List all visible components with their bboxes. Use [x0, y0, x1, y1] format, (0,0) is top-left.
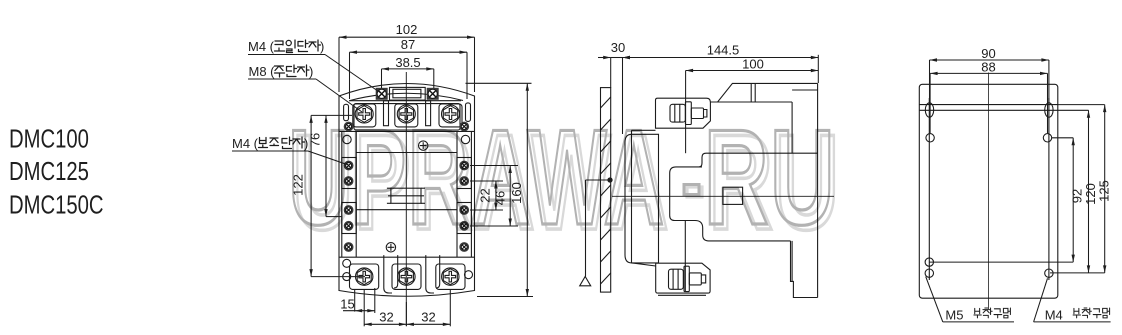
aux strips verticals — [341, 131, 343, 257]
watermark UPRAWA.RU — [288, 101, 841, 258]
inner arch line — [350, 93, 463, 100]
svg-text:38.5: 38.5 — [395, 55, 420, 70]
dimension 122 left — [311, 115, 365, 276]
front body outline — [339, 84, 475, 297]
shoulder top — [632, 129, 656, 131]
upper bolt housing — [656, 98, 711, 128]
svg-text:88: 88 — [981, 60, 995, 75]
svg-text:32: 32 — [379, 310, 393, 325]
보조단자 (aux terminal) at 258,137 — [259, 137, 305, 149]
dimension 38.5 — [382, 69, 434, 88]
label M4 aux terminal — [232, 136, 347, 165]
neck steps — [670, 167, 791, 241]
dimension 144.5 — [623, 55, 819, 83]
model list text — [9, 124, 104, 219]
aux blocks — [342, 158, 356, 189]
hole vertical centerlines — [928, 98, 930, 280]
plus screws on face — [386, 141, 428, 252]
lower bolt housing — [656, 263, 710, 293]
svg-text:UPRAWA: UPRAWA — [288, 101, 666, 252]
plate centerline — [988, 73, 990, 310]
datum triangle — [580, 178, 612, 286]
side body outline — [625, 83, 818, 297]
dimension 102 — [339, 37, 475, 92]
코일단자 (coil terminal) at 274,40 — [275, 40, 321, 53]
Korean glyphs group — [259, 40, 1110, 318]
부착구멍 M5 at 973,308 — [974, 308, 1010, 318]
front bulge — [625, 134, 659, 263]
svg-text:M4 (: M4 ( — [232, 136, 259, 151]
dimension 100 — [686, 71, 819, 154]
dimension 125 — [1050, 105, 1105, 273]
부착구멍 M4 at 1072,308 — [1073, 308, 1109, 318]
centerline front view — [405, 72, 407, 326]
terminal plate — [354, 104, 460, 130]
upper bolt — [670, 102, 707, 125]
leader M5 hole — [926, 277, 943, 322]
dimension 15 bottom — [343, 288, 375, 313]
svg-text:M8 (: M8 ( — [249, 64, 276, 79]
svg-text:15: 15 — [340, 297, 354, 312]
base pads — [350, 264, 379, 289]
dimension 32 32 bottom — [364, 290, 450, 326]
base holes — [343, 259, 351, 267]
body horizontal lines — [339, 130, 475, 132]
svg-text:M4 (: M4 ( — [248, 39, 275, 54]
svg-text:87: 87 — [401, 37, 415, 52]
bottom terminal screws row — [356, 268, 459, 285]
top slots — [925, 103, 933, 117]
mounting panel hatched — [601, 88, 611, 293]
svg-text:32: 32 — [421, 310, 435, 325]
coil terminal screws (M4) dark — [376, 88, 439, 100]
svg-text:): ) — [309, 64, 313, 79]
svg-text:): ) — [320, 39, 324, 54]
dimension 88 — [930, 73, 1047, 133]
dimension 76 left — [326, 115, 342, 216]
svg-text:DMC100: DMC100 — [9, 124, 89, 153]
bottom holes — [925, 258, 933, 266]
dimension 87 — [350, 52, 468, 99]
svg-text:M4: M4 — [1045, 308, 1063, 323]
row2 holes — [926, 134, 934, 142]
nameplate — [391, 188, 421, 203]
dimension 46 right — [470, 166, 518, 227]
top band — [919, 104, 1058, 106]
svg-text:125: 125 — [1097, 180, 1112, 202]
coil cover rect — [390, 87, 426, 100]
svg-text:100: 100 — [742, 56, 764, 71]
svg-text:M5: M5 — [945, 308, 963, 323]
side tabs — [344, 104, 349, 120]
bottom shoulder — [632, 263, 656, 266]
main terminal screws (M8) top row — [355, 105, 459, 123]
label M4 coil terminal — [248, 39, 380, 93]
dimension 160 right — [466, 83, 534, 296]
dimension 90 — [930, 60, 1049, 103]
svg-text:RU: RU — [704, 102, 836, 253]
label M8 main terminal — [248, 64, 362, 112]
roof — [710, 83, 817, 102]
dimension 120 — [1058, 110, 1089, 273]
plate outline — [919, 84, 1058, 298]
svg-text:102: 102 — [396, 22, 418, 37]
base channels — [384, 255, 392, 293]
svg-text:30: 30 — [611, 40, 625, 55]
주단자 (main terminal) at 274,65 — [275, 65, 310, 77]
lower bolt — [669, 266, 706, 291]
svg-text:DMC150C: DMC150C — [9, 190, 104, 219]
svg-text:144.5: 144.5 — [707, 43, 740, 58]
aux terminal screws dark columns — [344, 122, 469, 252]
rear flange — [817, 83, 819, 297]
dimension 22 right — [470, 181, 503, 210]
dimension 30 — [598, 58, 623, 135]
dimension 92 — [929, 138, 1073, 262]
svg-text:DMC125: DMC125 — [9, 157, 89, 186]
leader M4 hole — [1034, 278, 1048, 322]
barrier channels top — [384, 101, 389, 126]
side centerline + nameplate — [612, 195, 834, 197]
